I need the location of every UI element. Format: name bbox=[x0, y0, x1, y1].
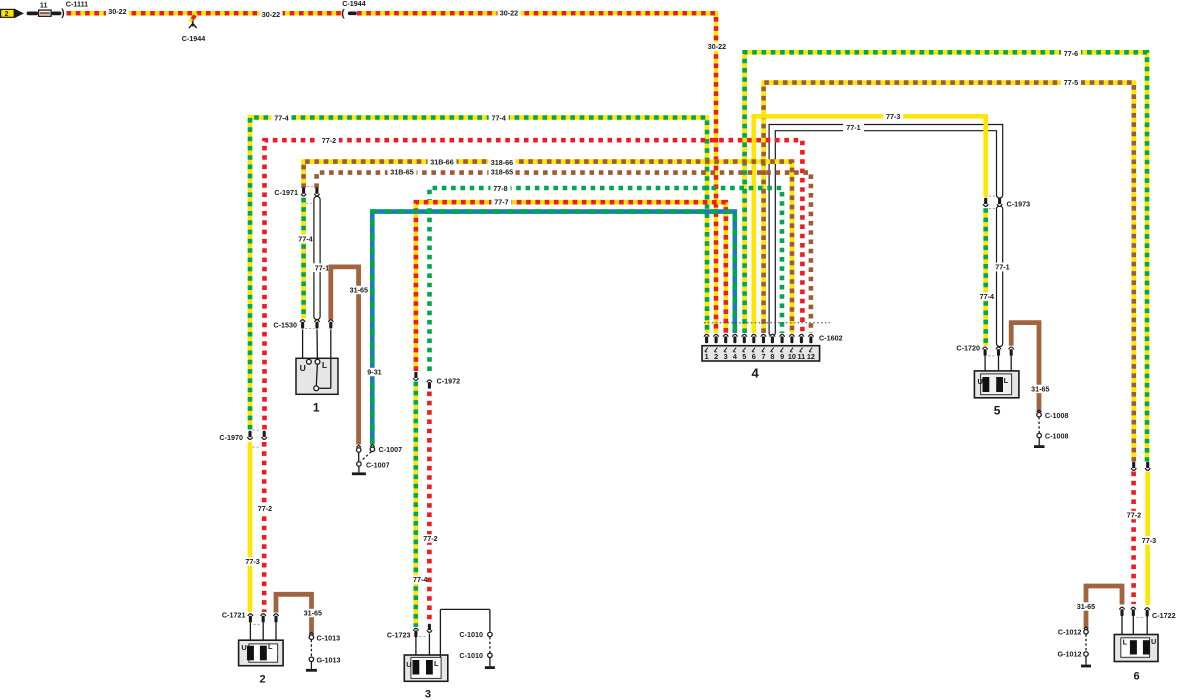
svg-text:C-1008: C-1008 bbox=[1045, 411, 1069, 420]
svg-text:77-5: 77-5 bbox=[1064, 78, 1078, 87]
label 318-65 bbox=[489, 168, 516, 177]
svg-text:L: L bbox=[1123, 638, 1128, 647]
connector 4 body bbox=[702, 346, 820, 381]
svg-text:30-22: 30-22 bbox=[708, 42, 726, 51]
svg-text:(: ( bbox=[341, 8, 345, 19]
svg-text:77-4: 77-4 bbox=[298, 234, 312, 243]
svg-text:L: L bbox=[1004, 376, 1009, 385]
svg-text:318-66: 318-66 bbox=[491, 158, 513, 167]
wire 77-4 C-1972 to C-1723 bbox=[413, 382, 418, 628]
lamp 1 bbox=[296, 330, 338, 415]
label 77-3 bbox=[1139, 536, 1159, 545]
svg-text:2: 2 bbox=[714, 352, 718, 361]
label 77-4 bbox=[489, 114, 509, 123]
svg-text:U: U bbox=[406, 660, 411, 669]
wire 31-65 brown component2 to C-1013 bbox=[276, 594, 312, 634]
label 77-4 bbox=[977, 292, 997, 301]
svg-text:C-1008: C-1008 bbox=[1045, 432, 1069, 441]
svg-text:5: 5 bbox=[742, 352, 746, 361]
lamp 6 bbox=[1114, 615, 1158, 683]
svg-text:31-65: 31-65 bbox=[1031, 385, 1049, 394]
wire 77-2 C-1970 to C-1721 bbox=[262, 442, 267, 612]
wire 77-4 C-1971 to C-1530 bbox=[301, 198, 306, 319]
label 77-3 bbox=[243, 557, 263, 566]
svg-text:11: 11 bbox=[40, 0, 48, 9]
connector C-1008 upper bbox=[1037, 410, 1069, 420]
svg-text:C-1721: C-1721 bbox=[222, 610, 246, 619]
svg-text:6: 6 bbox=[752, 352, 756, 361]
label 77-2 bbox=[255, 504, 275, 513]
svg-text:2: 2 bbox=[260, 674, 266, 686]
svg-text:12: 12 bbox=[807, 352, 815, 361]
wire 77-5 connector4 pin7 to right side bbox=[764, 83, 1134, 462]
connector C-1722 bbox=[1119, 607, 1175, 620]
wire 77-2 C-1972 to C-1723 bbox=[427, 392, 432, 625]
connector 4 pin row bbox=[704, 334, 814, 343]
label 77-1 bbox=[311, 263, 333, 272]
node 2 power feed arrow bbox=[1, 9, 24, 19]
svg-text:77-2: 77-2 bbox=[1127, 511, 1141, 520]
wire 77-3 inline pin to C-1722 bbox=[1145, 472, 1150, 606]
ground at C-1010 bbox=[485, 658, 495, 669]
connector C-1971 bbox=[274, 186, 319, 203]
label 77-3 bbox=[883, 112, 903, 121]
label 9-31 bbox=[365, 368, 384, 377]
connector C-1111 bbox=[61, 0, 88, 19]
svg-text:31-65: 31-65 bbox=[350, 286, 368, 295]
svg-text:77-7: 77-7 bbox=[494, 198, 508, 207]
ground at G-1013 bbox=[306, 662, 317, 672]
svg-text:318-65: 318-65 bbox=[491, 168, 513, 177]
svg-text:L: L bbox=[322, 360, 327, 370]
svg-text:77-3: 77-3 bbox=[1142, 536, 1156, 545]
wire 77-3 C-1970 to C-1721 bbox=[248, 442, 253, 612]
connector C-1007 lower pin bbox=[357, 452, 390, 470]
connector C-1970 bbox=[219, 430, 266, 447]
svg-text:77-2: 77-2 bbox=[322, 136, 336, 145]
lamp 2 bbox=[239, 623, 284, 686]
svg-text:C-1013: C-1013 bbox=[317, 634, 341, 643]
label 318-66 bbox=[489, 158, 516, 167]
label 77-5 bbox=[1061, 78, 1081, 87]
svg-text:6: 6 bbox=[1134, 671, 1140, 683]
svg-text:30-22: 30-22 bbox=[262, 10, 280, 19]
label 30-22 bbox=[498, 9, 521, 18]
svg-text:C-1720: C-1720 bbox=[956, 344, 980, 353]
wire black lead from fuse bbox=[53, 11, 59, 15]
svg-text:1: 1 bbox=[313, 401, 320, 415]
wire black lead to fuse bbox=[29, 11, 37, 15]
label 77-2 bbox=[421, 534, 441, 543]
label 77-1 bbox=[843, 123, 864, 132]
connector C-1602 dotted line bbox=[704, 323, 843, 343]
svg-text:11: 11 bbox=[798, 352, 806, 361]
svg-text:77-2: 77-2 bbox=[423, 534, 437, 543]
svg-text:9: 9 bbox=[780, 352, 784, 361]
svg-text:9-31: 9-31 bbox=[367, 368, 381, 377]
splice C-1944 bbox=[182, 14, 206, 44]
svg-text:C-1972: C-1972 bbox=[437, 376, 461, 385]
svg-text:G-1012: G-1012 bbox=[1058, 650, 1082, 659]
wire 31-65 brown component5 to C-1008 bbox=[1011, 323, 1039, 412]
svg-text:U: U bbox=[1151, 637, 1156, 646]
connector C-1723 bbox=[387, 624, 432, 640]
connector C-1530 bbox=[273, 320, 333, 330]
wire 77-8 C-1972 to connector4 pin9 bbox=[430, 188, 783, 371]
connector C-1008 lower bbox=[1037, 417, 1069, 441]
svg-text:77-3: 77-3 bbox=[245, 557, 259, 566]
connector C-1007 upper pins bbox=[356, 445, 402, 455]
label 31B-65 bbox=[388, 168, 417, 177]
svg-text:77-1: 77-1 bbox=[315, 263, 329, 272]
svg-text:U: U bbox=[300, 363, 306, 373]
svg-text:C-1970: C-1970 bbox=[219, 433, 243, 442]
wire 31-65 brown component1 to C-1007 bbox=[331, 267, 359, 445]
wire 30-22 segment B to connector 4 pin 2 bbox=[357, 13, 716, 333]
label 31-65 bbox=[1075, 602, 1097, 611]
wire ground component3 to C-1010 bbox=[440, 609, 490, 657]
wire 77-2 C-1970 to connector4 pin11 bbox=[265, 140, 803, 429]
svg-text:3: 3 bbox=[425, 689, 431, 700]
label 30-22 bbox=[706, 42, 729, 51]
svg-text:C-1723: C-1723 bbox=[387, 630, 411, 639]
svg-text:77-4: 77-4 bbox=[274, 114, 288, 123]
svg-text:C-1944: C-1944 bbox=[182, 34, 206, 43]
wire 77-3 connector4 pin6 to C-1973 bbox=[754, 116, 986, 333]
svg-text:77-3: 77-3 bbox=[886, 112, 900, 121]
svg-text:7: 7 bbox=[761, 352, 765, 361]
connector C-1010 lower bbox=[459, 637, 492, 660]
svg-text:L: L bbox=[434, 659, 439, 668]
wire 77-7 C-1972 to connector4 pin3 bbox=[416, 202, 726, 371]
svg-text:C-1971: C-1971 bbox=[274, 188, 298, 197]
wire 77-1 white connector4 pin8 to C-1973 bbox=[772, 128, 999, 333]
connector C-1972 bbox=[413, 372, 460, 389]
label 31-65 bbox=[302, 609, 324, 618]
label 30-22 bbox=[260, 10, 283, 19]
svg-text:77-8: 77-8 bbox=[493, 184, 507, 193]
label 77-1 bbox=[992, 263, 1014, 272]
svg-text:C-1722: C-1722 bbox=[1152, 611, 1176, 620]
svg-text:1: 1 bbox=[705, 352, 709, 361]
wire 77-4 C-1970 to connector4 pin1 bbox=[250, 118, 707, 430]
lamp 5 bbox=[974, 356, 1019, 418]
svg-text:U: U bbox=[241, 643, 246, 652]
label 77-4 bbox=[410, 575, 430, 584]
label 31B-66 bbox=[428, 157, 457, 166]
connector C-1720 bbox=[956, 344, 1013, 356]
svg-text:C-1010: C-1010 bbox=[459, 630, 483, 639]
svg-text:31B-65: 31B-65 bbox=[390, 168, 414, 177]
wire 31-65 brown component6 to C-1012 bbox=[1086, 586, 1122, 628]
wire 31B-66 C-1971 to connector4 pin10 bbox=[304, 162, 792, 333]
wire 77-1 white C-1971 to C-1530 bbox=[313, 200, 320, 317]
wire 9-31 C-1007 to connector4 pin4 bbox=[372, 212, 735, 445]
label 77-2 bbox=[1124, 511, 1144, 520]
label 77-8 bbox=[491, 184, 511, 193]
label 31-65 bbox=[348, 286, 370, 295]
inline connector pins right side bbox=[1131, 462, 1150, 471]
svg-text:77-4: 77-4 bbox=[413, 575, 427, 584]
svg-text:77-2: 77-2 bbox=[258, 504, 272, 513]
svg-text:31-65: 31-65 bbox=[1077, 602, 1095, 611]
connector C-1944 inline bbox=[341, 0, 365, 19]
ground at C-1007 bbox=[352, 466, 366, 475]
svg-text:L: L bbox=[268, 642, 273, 651]
svg-text:5: 5 bbox=[994, 404, 1001, 418]
svg-text:30-22: 30-22 bbox=[500, 9, 518, 18]
connector C-1012 bbox=[1058, 627, 1088, 636]
ground at G-1012 bbox=[1081, 656, 1091, 667]
label 77-2 bbox=[319, 136, 339, 145]
svg-text:C-1010: C-1010 bbox=[459, 651, 483, 660]
svg-text:C-1944: C-1944 bbox=[342, 0, 366, 8]
svg-text:U: U bbox=[978, 377, 983, 386]
wire 30-22 segment A bbox=[67, 11, 344, 16]
svg-text:C-1007: C-1007 bbox=[379, 445, 403, 454]
connector G-1013 bbox=[309, 640, 340, 665]
svg-text:G-1013: G-1013 bbox=[317, 655, 341, 664]
svg-text:77-4: 77-4 bbox=[980, 292, 994, 301]
svg-text:): ) bbox=[61, 8, 64, 19]
wire 77-4 C-1973 to C-1720 bbox=[983, 208, 988, 346]
connector C-1013 bbox=[309, 632, 340, 642]
svg-text:4: 4 bbox=[751, 366, 759, 381]
svg-text:77-4: 77-4 bbox=[492, 114, 506, 123]
label 77-7 bbox=[492, 198, 512, 207]
wire 77-2 inline pin to C-1722 bbox=[1131, 472, 1136, 605]
svg-text:77-6: 77-6 bbox=[1064, 49, 1078, 58]
label 77-4 bbox=[296, 234, 316, 243]
svg-text:77-1: 77-1 bbox=[995, 263, 1009, 272]
connector C-1721 bbox=[222, 610, 279, 624]
svg-text:2: 2 bbox=[5, 11, 9, 18]
label 31-65 bbox=[1029, 385, 1051, 394]
wire 77-6 connector4 pin5 to right side bbox=[745, 52, 1147, 461]
lamp 3 bbox=[404, 634, 448, 700]
svg-text:C-1012: C-1012 bbox=[1058, 627, 1082, 636]
svg-text:C-1007: C-1007 bbox=[366, 460, 390, 469]
label 77-4 bbox=[271, 114, 291, 123]
svg-text:30-22: 30-22 bbox=[108, 7, 126, 16]
wire 77-1 white C-1973 to C-1720 bbox=[996, 209, 1003, 344]
fuse 11 bbox=[39, 0, 52, 16]
label 77-6 bbox=[1061, 49, 1081, 58]
svg-text:10: 10 bbox=[788, 352, 796, 361]
ground at C-1008 bbox=[1034, 438, 1045, 448]
svg-text:C-1530: C-1530 bbox=[273, 320, 297, 329]
svg-text:C-1973: C-1973 bbox=[1007, 199, 1031, 208]
svg-text:C-1602: C-1602 bbox=[819, 333, 843, 342]
connector G-1012 bbox=[1058, 634, 1089, 658]
svg-text:C-1111: C-1111 bbox=[66, 0, 88, 8]
svg-text:3: 3 bbox=[724, 352, 728, 361]
connector C-1010 upper bbox=[459, 630, 492, 639]
wire 31B-65 C-1971 to connector4 pin12 bbox=[317, 173, 811, 333]
connector C-1973 bbox=[983, 196, 1030, 208]
svg-text:8: 8 bbox=[770, 352, 774, 361]
svg-text:31-65: 31-65 bbox=[304, 609, 322, 618]
svg-text:31B-66: 31B-66 bbox=[430, 157, 454, 166]
label 30-22 bbox=[106, 7, 129, 16]
svg-text:77-1: 77-1 bbox=[846, 123, 860, 132]
